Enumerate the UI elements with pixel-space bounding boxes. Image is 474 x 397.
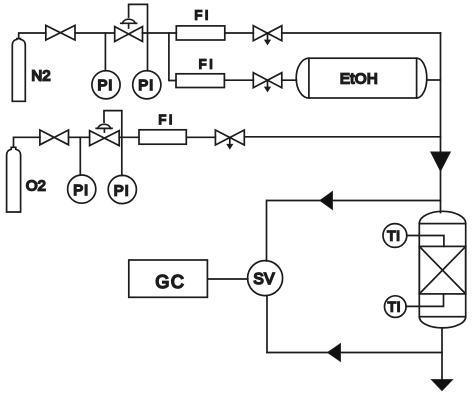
needle valve EtOH line	[253, 73, 281, 92]
valve N2 shutoff	[46, 25, 75, 40]
vent arrow	[432, 380, 453, 391]
svg-text:PI: PI	[114, 182, 130, 199]
flow arrow down on header	[431, 152, 451, 171]
flow indicator FI3	[139, 130, 186, 144]
regulator sensing loop O2	[104, 111, 122, 138]
wire O2 to main header	[244, 136, 440, 138]
svg-text:GC: GC	[155, 272, 185, 292]
wire valve to EtOH vessel	[282, 79, 297, 81]
wire FI1 to needle valve	[225, 32, 254, 34]
needle valve O2 line	[215, 130, 244, 149]
svg-text:TI: TI	[388, 299, 401, 314]
svg-text:EtOH: EtOH	[340, 70, 378, 87]
svg-text:FI: FI	[199, 58, 216, 72]
catalyst bed X	[419, 246, 465, 294]
wire O2 outlet	[14, 137, 40, 147]
wire N2 to main header	[282, 32, 441, 34]
wire regulator to FI3	[119, 136, 139, 138]
needle valve N2 line	[253, 26, 281, 45]
GC box	[129, 260, 208, 297]
flow arrow left to sample valve	[320, 192, 332, 210]
svg-text:FI: FI	[195, 9, 212, 23]
wire branch to FI2	[169, 33, 176, 81]
reactor return line	[267, 352, 442, 354]
N2 cylinder	[12, 39, 25, 102]
wire EtOH to main header	[427, 79, 441, 81]
flow indicator FI2	[176, 74, 224, 88]
wire SV to return line	[266, 296, 268, 353]
pressure gauge PI1	[92, 33, 120, 99]
pressure regulator N2	[115, 19, 143, 41]
wire N2 outlet	[19, 33, 46, 38]
thermocouple TI1	[383, 224, 444, 248]
svg-text:N2: N2	[31, 68, 50, 85]
svg-text:PI: PI	[98, 77, 114, 94]
wire FI3 to needle valve	[186, 136, 215, 138]
pressure regulator O2	[90, 124, 120, 145]
svg-text:PI: PI	[73, 182, 89, 199]
pressure gauge PI2	[133, 33, 161, 99]
EtOH saturator vessel	[296, 58, 427, 98]
reactor outlet line	[441, 328, 443, 380]
main header vertical	[440, 33, 442, 213]
pressure gauge PI3	[68, 137, 96, 203]
valve O2 shutoff	[40, 130, 69, 145]
thermocouple TI2	[385, 294, 444, 318]
svg-text:PI: PI	[138, 77, 154, 94]
wire loop to SV	[266, 201, 268, 261]
svg-text:O2: O2	[26, 178, 46, 195]
wire GC to SV	[208, 278, 248, 280]
regulator sensing loop N2	[129, 4, 148, 33]
wire FI2 to needle valve	[224, 79, 253, 81]
sampling valve SV	[248, 261, 283, 296]
svg-text:SV: SV	[253, 271, 275, 288]
pressure gauge PI4	[108, 137, 136, 203]
flow indicator FI1	[176, 26, 225, 40]
sample loop supply line	[267, 200, 441, 202]
flow arrow left on return	[328, 344, 341, 362]
wire regulator outlet	[143, 32, 177, 34]
wire valve to regulator	[75, 32, 115, 34]
svg-text:FI: FI	[159, 113, 176, 127]
wire valve to regulator O2	[69, 136, 90, 138]
svg-text:TI: TI	[387, 228, 400, 243]
reactor vessel	[419, 211, 465, 328]
O2 cylinder	[7, 147, 21, 212]
